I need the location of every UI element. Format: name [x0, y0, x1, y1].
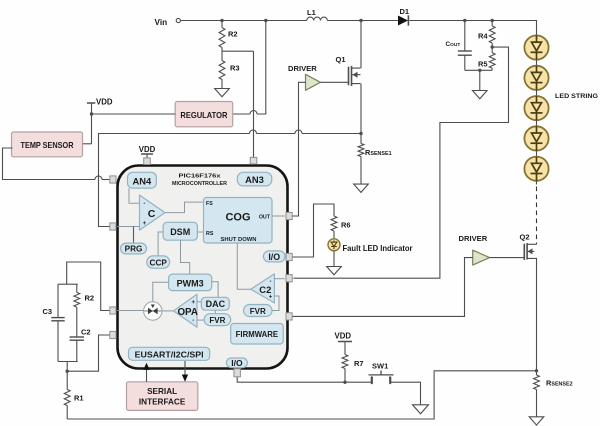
resistor RSENSE2	[534, 375, 573, 417]
LED string label	[555, 93, 598, 100]
node R2 tap	[220, 19, 223, 22]
wire Q1 source down	[360, 84, 362, 144]
wire pin to comparator plus	[117, 226, 139, 228]
wire network bottom to MCU pin	[67, 335, 112, 371]
wire Q2 source to RSENSE2	[534, 258, 536, 375]
svg-text:+: +	[192, 300, 196, 306]
resistor R3	[219, 51, 239, 88]
wire DSM to PWM3	[181, 240, 190, 274]
wire VDD to temp sensor	[83, 143, 92, 145]
svg-text:COUT: COUT	[446, 41, 461, 48]
svg-text:C2: C2	[259, 284, 271, 295]
svg-text:EUSART/I2C/SPI: EUSART/I2C/SPI	[135, 349, 204, 359]
node RSENSE1 top	[359, 132, 362, 135]
wire network top node	[58, 283, 78, 285]
pin C2 comparator right	[286, 275, 292, 282]
port I/O fault	[263, 251, 285, 262]
wire Q1 drain to rail	[360, 21, 362, 69]
node COUT tap	[463, 19, 466, 22]
wire comparator to COG FS	[165, 202, 204, 213]
svg-text:VDD: VDD	[139, 145, 156, 154]
capacitor C2 (compensation)	[70, 328, 91, 362]
block PWM3	[169, 274, 212, 291]
svg-text:+: +	[269, 294, 273, 300]
op-amp OPA	[174, 294, 198, 327]
wire MCU I/O to fault branch	[291, 204, 334, 257]
wire feedback RSENSE1 to comparator (hops)	[99, 130, 362, 227]
wire PWM3 to DAC	[212, 282, 218, 298]
wire OPA plus to DAC	[197, 301, 201, 303]
svg-text:DRIVER: DRIVER	[459, 234, 488, 243]
LED D-E	[524, 157, 548, 181]
block PRG	[121, 243, 147, 254]
node R1 top junction	[66, 370, 69, 373]
svg-text:R4: R4	[478, 32, 488, 41]
ground below fault LED	[327, 267, 342, 275]
wire LED string continuation (dashed)	[536, 181, 538, 245]
svg-text:Q1: Q1	[336, 55, 346, 64]
svg-text:LED STRING: LED STRING	[555, 93, 598, 100]
node regulator tap	[264, 19, 267, 22]
power VDD (R7)	[335, 332, 353, 355]
node R4-R5 junction	[491, 45, 494, 48]
wire network bottom to R1	[66, 362, 68, 390]
svg-text:R6: R6	[341, 221, 351, 230]
input terminal Vin	[155, 18, 181, 27]
port I/O bottom	[226, 358, 247, 368]
LED D-B	[524, 66, 548, 90]
svg-text:DSM: DSM	[170, 227, 190, 237]
pin fault I/O right	[286, 253, 292, 260]
wire Q2 drain	[534, 243, 536, 245]
wire Vin to L1	[181, 20, 307, 22]
block DSM	[163, 222, 197, 240]
svg-text:REGULATOR: REGULATOR	[180, 110, 227, 120]
svg-text:-: -	[143, 201, 145, 207]
pin COG OUT right	[286, 212, 292, 219]
svg-text:-: -	[270, 279, 272, 285]
fault LED indicator	[328, 239, 413, 253]
transistor Q1	[336, 55, 361, 86]
LED D-A	[524, 35, 548, 59]
svg-text:INTERFACE: INTERFACE	[139, 398, 186, 407]
block EUSART/I2C/SPI	[129, 347, 210, 360]
ground below COUT	[473, 70, 488, 99]
wire LED4-LED5	[536, 151, 538, 157]
wire DSM to CCP	[158, 232, 163, 256]
svg-text:Q2: Q2	[520, 233, 530, 242]
microcontroller U1 body PIC16F176x	[118, 166, 288, 369]
svg-text:DRIVER: DRIVER	[288, 64, 317, 73]
arrow serial to MCU	[143, 363, 149, 382]
wire AN4 to comparator	[129, 188, 140, 203]
wire C2 minus to pin	[274, 278, 284, 280]
svg-text:R7: R7	[354, 359, 364, 368]
resistor R5	[478, 47, 495, 70]
svg-text:R3: R3	[230, 64, 240, 73]
svg-text:Fault LED Indicator: Fault LED Indicator	[343, 244, 414, 253]
wire ground rail bottom	[67, 371, 536, 419]
svg-text:C2: C2	[81, 328, 91, 337]
wire divider tap to MCU C2 pin	[293, 47, 508, 278]
wire driver2 to Q2 gate	[490, 257, 525, 259]
svg-text:TEMP SENSOR: TEMP SENSOR	[21, 141, 74, 150]
ground below SW1	[413, 405, 429, 414]
serial interface box	[127, 382, 198, 411]
svg-text:C: C	[148, 208, 156, 220]
svg-text:-: -	[192, 318, 194, 324]
node R4 tap	[491, 19, 494, 22]
svg-text:L1: L1	[307, 8, 316, 17]
port AN4	[128, 172, 157, 188]
svg-text:PIC16F176x: PIC16F176x	[179, 174, 222, 180]
svg-text:Vin: Vin	[155, 18, 168, 27]
wire switch to ground	[390, 382, 420, 405]
regulator REGULATOR	[175, 102, 233, 127]
resistor R4	[478, 21, 495, 48]
wire R2-R3 junction to AN3 line	[222, 50, 254, 52]
comparator C2	[251, 274, 275, 303]
resistor R1	[64, 390, 83, 420]
svg-text:COG: COG	[225, 212, 250, 224]
pin bottom I/O	[234, 369, 240, 377]
wire COG OUT to driver input	[291, 82, 306, 216]
svg-text:I/O: I/O	[231, 358, 243, 368]
svg-text:AN3: AN3	[245, 174, 264, 185]
wire driver to Q1 gate	[320, 81, 348, 83]
svg-text:SHUT DOWN: SHUT DOWN	[221, 237, 257, 243]
capacitor COUT	[446, 21, 472, 71]
svg-text:VDD: VDD	[335, 332, 352, 341]
resistor R2	[219, 21, 237, 52]
wire DAC to FVR	[214, 310, 216, 314]
wire Vin to regulator input	[231, 21, 266, 115]
resistor RSENSE1	[358, 144, 392, 185]
wire DSM to COG RS	[197, 231, 203, 233]
svg-text:FS: FS	[206, 201, 213, 207]
node COUT ground tap	[478, 69, 481, 72]
svg-text:AN4: AN4	[133, 176, 153, 187]
transistor Q2	[520, 233, 535, 261]
wire network bottom node	[58, 361, 78, 363]
svg-text:D1: D1	[400, 7, 410, 16]
wire VDD to regulator	[92, 113, 176, 115]
svg-text:SERIAL: SERIAL	[147, 387, 177, 396]
node RSENSE2 top	[535, 369, 538, 372]
svg-text:R2: R2	[85, 294, 95, 303]
pin OPA left	[110, 307, 116, 314]
svg-text:C3: C3	[43, 307, 53, 316]
block FIRMWARE	[231, 324, 284, 345]
svg-text:OUT: OUT	[259, 215, 271, 221]
svg-text:VDD: VDD	[96, 98, 113, 107]
wire PRG to comparator input	[133, 227, 135, 244]
svg-text:FVR: FVR	[250, 307, 266, 316]
wire COUT bottom to R5 bottom	[465, 69, 492, 71]
driver DRIVER (boost gate)	[288, 64, 320, 90]
wire PWM3 to modulator	[153, 282, 169, 302]
pin C2cap left	[110, 331, 116, 338]
wire FVR to C2 plus	[272, 296, 279, 311]
inductor L1	[307, 8, 328, 21]
wire network top to OPA pin	[67, 262, 112, 311]
LED D-D	[524, 126, 548, 150]
power VDD (MCU)	[139, 145, 156, 160]
svg-text:PWM3: PWM3	[177, 278, 204, 288]
pin driver I/O right	[286, 313, 292, 320]
svg-text:PRG: PRG	[125, 245, 143, 254]
switch SW1	[369, 362, 394, 384]
resistor R2 (compensation)	[74, 284, 94, 337]
wire LED1-LED2	[536, 60, 538, 66]
svg-text:+: +	[143, 221, 147, 227]
wire OPA minus to FVR	[197, 319, 204, 321]
power VDD (regulator output)	[87, 98, 113, 144]
wire MCU bottom I/O to switch	[237, 375, 372, 382]
driver DRIVER (dimming)	[459, 234, 490, 265]
svg-text:FIRMWARE: FIRMWARE	[236, 330, 278, 339]
wire temp sensor to AN4 pin	[3, 148, 113, 180]
wire C2 output to COG shutdown	[237, 243, 251, 289]
ground below RSENSE1	[354, 184, 369, 192]
block COG	[204, 198, 273, 244]
wire LED3-LED4	[536, 120, 538, 126]
svg-text:I/O: I/O	[268, 252, 280, 262]
capacitor C3	[43, 284, 65, 361]
modulator (analog switch)	[144, 302, 162, 320]
comparator C	[140, 195, 166, 230]
svg-text:R1: R1	[74, 394, 84, 403]
pin AN4 left	[110, 176, 116, 183]
wire D1 to LED string	[410, 21, 537, 36]
svg-text:CCP: CCP	[150, 258, 168, 267]
arrow MCU to serial	[182, 361, 188, 382]
block CCP	[147, 256, 170, 268]
node Q1 drain tap	[359, 19, 362, 22]
block DAC	[201, 297, 229, 310]
svg-text:MICROCONTROLLER: MICROCONTROLLER	[172, 181, 228, 187]
svg-text:SW1: SW1	[372, 362, 388, 371]
block FVR (C2 reference)	[244, 305, 272, 317]
wire MCU I/O to driver2 input	[291, 258, 473, 317]
svg-text:OPA: OPA	[177, 307, 198, 318]
node R7 bottom	[343, 381, 346, 384]
node VDD branch	[90, 112, 93, 115]
pin AN3 top	[250, 157, 257, 164]
ground below RSENSE2	[529, 417, 544, 425]
pin VDD top	[144, 158, 151, 165]
svg-text:R5: R5	[478, 60, 488, 69]
svg-text:R2: R2	[228, 30, 238, 39]
resistor R7	[342, 355, 363, 383]
svg-text:RS: RS	[206, 231, 214, 237]
wire AN3 feed	[253, 51, 255, 159]
svg-text:DAC: DAC	[206, 299, 226, 309]
temp sensor TEMP SENSOR	[12, 132, 83, 157]
pin comparator C left	[110, 223, 116, 230]
wire fault LED to ground	[333, 251, 335, 267]
wire pin to modulator	[117, 310, 143, 312]
LED D-C	[524, 96, 548, 120]
diode D1	[398, 7, 409, 26]
wire L1 to D1	[327, 20, 398, 22]
block FVR (DAC reference)	[204, 314, 231, 326]
port AN3	[237, 172, 271, 186]
wire modulator to OPA	[162, 310, 174, 312]
ground below R3	[215, 89, 230, 97]
resistor R6	[331, 216, 350, 239]
svg-text:FVR: FVR	[209, 316, 225, 325]
wire LED2-LED3	[536, 90, 538, 96]
wire COG OUT to pin	[272, 215, 285, 217]
